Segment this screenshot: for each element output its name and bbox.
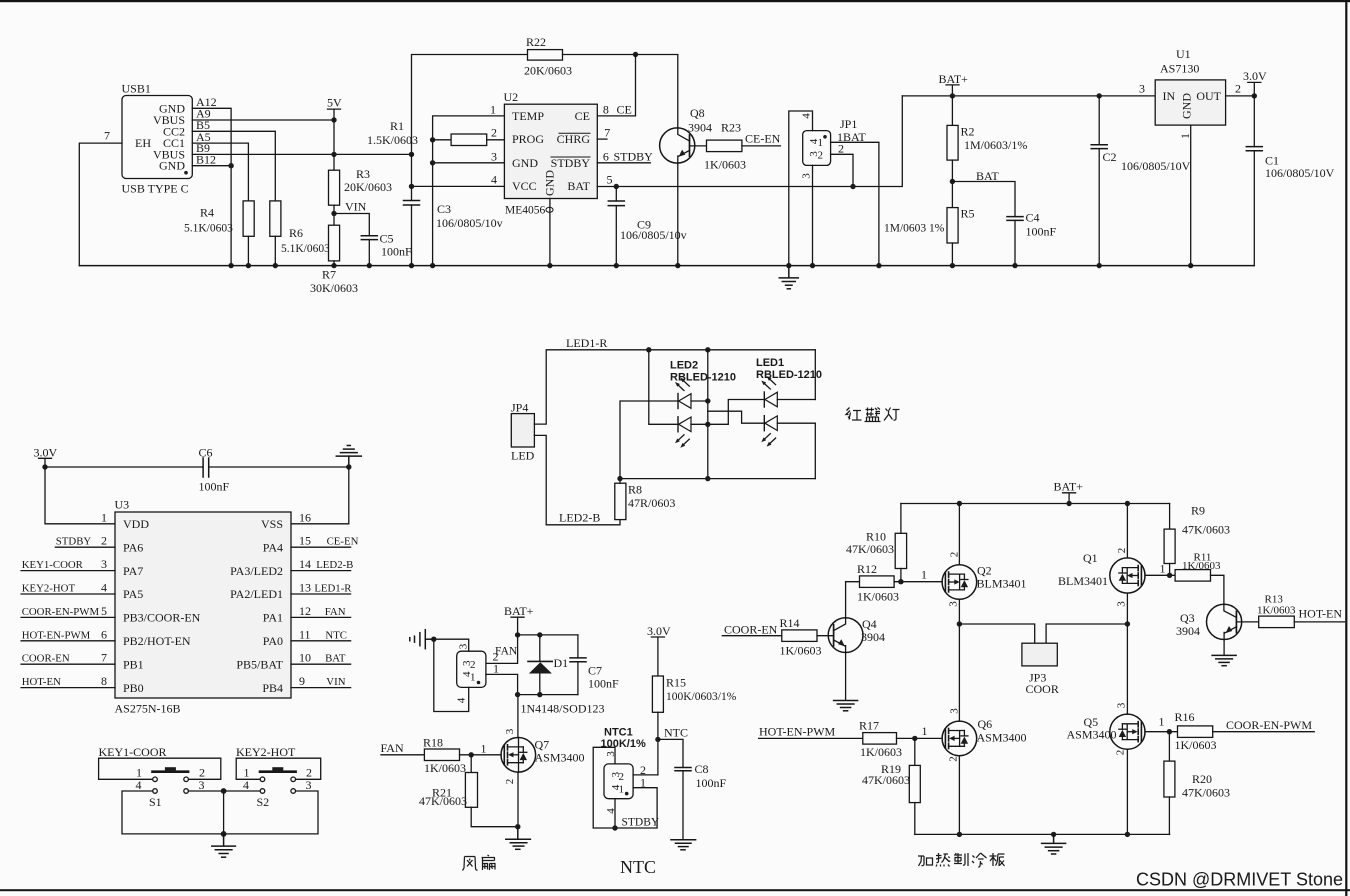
wire Q8 base to R23 <box>690 145 707 147</box>
junction A9 5V <box>331 117 336 122</box>
U2 pin numbers left <box>490 103 497 187</box>
mosfet Q6 <box>942 721 977 756</box>
svg-text:2: 2 <box>1116 548 1128 554</box>
wire fan pin1 to drain rail <box>486 674 518 694</box>
wire U1 GND pin1 <box>1190 125 1192 266</box>
svg-text:USB1: USB1 <box>122 82 151 96</box>
svg-text:7: 7 <box>104 129 110 143</box>
svg-text:2: 2 <box>1115 750 1127 756</box>
resistor R23 <box>707 140 742 152</box>
svg-text:4: 4 <box>101 581 107 595</box>
svg-text:106/0805/10v: 106/0805/10v <box>620 228 687 242</box>
resistor R20 <box>1164 761 1175 797</box>
svg-text:PROG: PROG <box>512 132 544 146</box>
wire Q1 drain down <box>1126 593 1128 624</box>
svg-text:1: 1 <box>493 662 499 676</box>
wire R21 bottom to source <box>471 807 518 826</box>
U3 pin numbers right <box>299 510 311 688</box>
svg-text:CE-EN: CE-EN <box>745 132 781 146</box>
svg-text:3904: 3904 <box>688 121 712 135</box>
U3 right net labels <box>314 536 358 688</box>
junction Q5 gate node <box>1167 729 1172 734</box>
svg-text:5V: 5V <box>327 96 342 110</box>
svg-text:Q2: Q2 <box>977 564 992 578</box>
wire crossover to LED1 top <box>708 400 765 425</box>
svg-text:COOR: COOR <box>1026 682 1059 696</box>
ground symbol Q3 <box>1212 655 1236 665</box>
svg-text:R12: R12 <box>857 562 877 576</box>
wire NTC1 pin2 <box>633 774 658 776</box>
svg-text:R17: R17 <box>859 719 879 733</box>
svg-text:4: 4 <box>456 697 468 703</box>
resistor R1 <box>451 134 487 146</box>
svg-text:6: 6 <box>101 627 107 641</box>
svg-text:LED2-B: LED2-B <box>559 511 600 525</box>
U3 pin names left <box>123 517 201 695</box>
capacitor C4 <box>1007 217 1023 266</box>
svg-text:C7: C7 <box>588 664 602 678</box>
svg-text:AS7130: AS7130 <box>1160 62 1199 76</box>
U3 pin numbers left <box>101 510 107 688</box>
svg-text:ME4056: ME4056 <box>505 205 546 217</box>
svg-text:1N4148/SOD123: 1N4148/SOD123 <box>521 702 605 716</box>
svg-text:HOT-EN-PWM: HOT-EN-PWM <box>759 725 836 739</box>
wire Q7 source down <box>517 772 519 827</box>
wire TEMP pin1 <box>433 116 505 266</box>
svg-text:GND: GND <box>543 170 557 196</box>
svg-text:3: 3 <box>1116 702 1128 708</box>
svg-text:KEY1-COOR: KEY1-COOR <box>22 559 84 571</box>
ground symbol keys <box>212 834 236 857</box>
svg-text:13: 13 <box>299 581 311 595</box>
svg-text:10: 10 <box>299 651 311 665</box>
svg-text:30K/0603: 30K/0603 <box>310 281 358 295</box>
svg-text:BLM3401: BLM3401 <box>1058 574 1108 588</box>
junction top rail x649 <box>646 347 651 352</box>
wire Q8 emitter to rail <box>677 163 679 266</box>
wire Q5 drain up <box>1126 624 1128 714</box>
svg-text:R14: R14 <box>780 616 800 630</box>
wire BAT+ top rail <box>902 95 1155 97</box>
svg-text:PB3/COOR-EN: PB3/COOR-EN <box>123 611 201 625</box>
capacitor C6 <box>203 458 209 477</box>
svg-text:R23: R23 <box>721 121 741 135</box>
wire U2 GND bottom <box>549 199 551 266</box>
resistor R5 <box>947 208 958 243</box>
wire Q6 drain up <box>958 624 960 721</box>
svg-text:ASM3400: ASM3400 <box>535 751 585 765</box>
svg-text:1.5K/0603: 1.5K/0603 <box>367 133 418 147</box>
svg-text:BAT: BAT <box>567 179 590 193</box>
wire H-bridge top rail <box>901 503 1170 505</box>
wire JP4 pin1 to LED1-R rail <box>534 350 815 424</box>
title ban board char <box>990 853 1005 866</box>
wire NTC to C8 <box>658 739 683 767</box>
svg-text:LED1-R: LED1-R <box>566 336 607 350</box>
power BAT+ symbol <box>939 72 969 96</box>
svg-text:PB1: PB1 <box>123 657 144 671</box>
svg-text:2: 2 <box>838 142 844 156</box>
wire Q5 source down <box>1126 749 1128 834</box>
svg-text:1K/0603: 1K/0603 <box>857 590 899 604</box>
wire S1 pin4 loop <box>122 791 224 834</box>
svg-text:1: 1 <box>921 568 927 582</box>
svg-text:RBLED-1210: RBLED-1210 <box>670 372 736 384</box>
resistor R8 <box>615 483 626 519</box>
wire JP1 pin4 to ground <box>789 111 813 266</box>
svg-text:RBLED-1210: RBLED-1210 <box>756 369 822 381</box>
junction U2 GND rail <box>547 263 552 268</box>
junction R8 rail <box>617 476 622 481</box>
svg-text:PB5/BAT: PB5/BAT <box>236 657 283 671</box>
svg-text:2: 2 <box>491 126 497 140</box>
svg-text:4: 4 <box>801 113 813 119</box>
title deng lamp char <box>884 408 900 421</box>
wire H-bridge bottom rail <box>915 833 1170 835</box>
junction C3 rail <box>409 263 414 268</box>
junction VIN <box>331 211 336 216</box>
wire R21 vertical <box>470 755 472 773</box>
svg-text:KEY1-COOR: KEY1-COOR <box>99 745 167 759</box>
resistor R11 <box>1175 570 1210 582</box>
wire B5 CC2 to R6 <box>192 131 275 201</box>
wire Q4 collector to R12 <box>846 582 860 618</box>
capacitor C7 <box>570 635 586 695</box>
svg-text:4: 4 <box>808 138 820 144</box>
svg-text:7: 7 <box>101 651 107 665</box>
wire NTC1 pin1 to STDBY <box>615 788 657 828</box>
wire Q1 source up <box>1126 504 1128 558</box>
wire JP1 pin3 down <box>812 165 814 265</box>
svg-text:C5: C5 <box>380 232 394 246</box>
svg-text:NTC: NTC <box>664 726 688 740</box>
svg-text:STDBY: STDBY <box>614 149 654 163</box>
wire R9 to Q1 gate node <box>1169 564 1171 576</box>
svg-text:C2: C2 <box>1103 150 1117 164</box>
junction Q8 emitter rail <box>675 263 680 268</box>
svg-text:USB TYPE C: USB TYPE C <box>122 182 189 196</box>
power 3.0V symbol U3 <box>34 446 58 468</box>
resistor R18 <box>424 749 459 761</box>
wire R1 left stub <box>433 139 452 141</box>
IC U2 body <box>504 104 597 198</box>
junction Q2 gate node <box>898 579 903 584</box>
svg-text:OUT: OUT <box>1196 89 1221 103</box>
wire R2 to BAT node <box>951 160 953 208</box>
wire NTC1 pin4 stub <box>614 799 616 828</box>
junction LED2 top anode <box>705 398 710 403</box>
svg-text:IN: IN <box>1163 89 1176 103</box>
wire rail to R2 <box>951 96 953 126</box>
S2 pin labels <box>243 766 312 793</box>
wire JP1 pin2 to BAT line <box>831 154 853 186</box>
wire 5V to R3 <box>333 120 335 170</box>
wire COOR-EN to R14 <box>722 635 782 637</box>
junction top rail x708 <box>705 347 710 352</box>
svg-text:47R/0603: 47R/0603 <box>628 496 675 510</box>
wire Q5 gate wire <box>1145 731 1178 733</box>
capacitor C9 <box>608 187 624 266</box>
NTC1 inside numbers <box>610 771 624 796</box>
wire R19 to bottom rail <box>914 803 916 835</box>
junction BAT+ rail <box>950 93 955 98</box>
svg-text:100nF: 100nF <box>696 776 727 790</box>
svg-text:VIN: VIN <box>326 676 345 688</box>
svg-text:ASM3400: ASM3400 <box>977 731 1027 745</box>
junction B12 <box>228 163 233 168</box>
junction Q6 gate node <box>912 736 917 741</box>
junction VSS rail <box>346 464 351 469</box>
U2 pin names <box>512 109 591 196</box>
resistor R3 <box>329 170 340 205</box>
svg-text:STDBY: STDBY <box>56 536 92 548</box>
resistor R2 <box>947 125 958 160</box>
wire Q1 gate wire <box>1145 574 1175 576</box>
svg-text:1: 1 <box>1178 133 1192 139</box>
wire R6 to rail <box>274 236 276 265</box>
svg-text:4: 4 <box>243 778 249 792</box>
mosfet Q7 <box>501 738 536 773</box>
svg-text:R9: R9 <box>1191 504 1205 518</box>
svg-text:C3: C3 <box>437 202 451 216</box>
junction LED2 bottom anode <box>705 422 710 427</box>
svg-text:PB2/HOT-EN: PB2/HOT-EN <box>123 634 191 648</box>
svg-text:VIN: VIN <box>345 200 367 214</box>
ground symbol fan bottom <box>506 827 531 850</box>
svg-text:R1: R1 <box>390 119 404 133</box>
wire fan pin4 loop <box>434 639 469 711</box>
LED LED2 top diode <box>675 378 708 409</box>
svg-text:U3: U3 <box>115 498 130 512</box>
svg-text:PA0: PA0 <box>263 634 283 648</box>
title feng wind char <box>463 857 478 871</box>
wire COOR-EN-PWM <box>1213 731 1315 733</box>
title leng cold char <box>972 853 987 868</box>
junction VCC C3 <box>409 184 414 189</box>
wire COOR right rail to JP3 <box>1046 624 1127 643</box>
wire CHRG pin7 stub <box>597 138 607 140</box>
svg-text:16: 16 <box>299 510 311 524</box>
wire R8 top to LED bottom rail <box>620 479 815 484</box>
svg-text:1: 1 <box>101 510 107 524</box>
svg-text:S2: S2 <box>257 795 270 809</box>
IC U3 body <box>115 512 291 698</box>
wire main ground rail <box>79 265 1254 267</box>
wire GND pin3 <box>433 162 505 164</box>
svg-text:PA7: PA7 <box>123 564 143 578</box>
junction gnd rail <box>1051 832 1056 837</box>
svg-text:R2: R2 <box>961 125 975 139</box>
resistor R15 <box>652 676 663 712</box>
wire rail to R10 <box>900 504 902 534</box>
resistor R12 <box>860 576 895 588</box>
svg-text:3: 3 <box>504 728 516 734</box>
junction R1 left <box>430 137 435 142</box>
svg-text:CE: CE <box>575 109 590 123</box>
wire R22 rail right to Q8 collector <box>563 55 678 129</box>
U3 right net stub wires <box>291 547 351 687</box>
wire R17 to Q6 gate <box>897 737 943 739</box>
svg-text:3: 3 <box>1116 601 1128 607</box>
svg-text:PA6: PA6 <box>123 540 143 554</box>
junction D1 rail top <box>515 632 520 637</box>
wire R12 to gate node <box>894 581 942 583</box>
wire LED2 common vertical <box>707 350 709 479</box>
svg-text:3.0V: 3.0V <box>34 446 58 460</box>
svg-text:C4: C4 <box>1026 211 1040 225</box>
svg-text:CE: CE <box>617 103 632 117</box>
junction fan gnd <box>431 637 436 642</box>
ground symbol fan rotated <box>410 630 434 649</box>
svg-text:47K/0603: 47K/0603 <box>419 794 467 808</box>
junction rail Q1 <box>1125 501 1130 506</box>
U3 left net labels <box>22 536 100 688</box>
svg-text:1: 1 <box>481 742 487 756</box>
resistor R16 <box>1178 726 1213 738</box>
capacitor C2 <box>1091 96 1107 266</box>
svg-text:R6: R6 <box>289 226 303 240</box>
switch S2 <box>260 767 296 793</box>
svg-text:BAT+: BAT+ <box>1054 480 1084 494</box>
wire R10 to gate node <box>900 569 902 582</box>
junction NTC node <box>655 737 660 742</box>
svg-text:VSS: VSS <box>261 517 283 531</box>
svg-text:STDBY: STDBY <box>551 156 591 170</box>
svg-text:3: 3 <box>949 708 961 714</box>
svg-text:8: 8 <box>603 103 609 117</box>
U2 pin numbers right <box>603 103 653 187</box>
svg-text:R18: R18 <box>423 736 443 750</box>
svg-text:BAT: BAT <box>325 653 346 665</box>
svg-text:BLM3401: BLM3401 <box>977 577 1027 591</box>
diode D1 <box>528 635 552 695</box>
junction Q7 source gnd <box>515 824 520 829</box>
power 5V symbol <box>327 96 342 121</box>
switch S1 <box>153 767 189 793</box>
svg-text:AS275N-16B: AS275N-16B <box>115 702 181 716</box>
svg-text:CHRG: CHRG <box>557 132 591 146</box>
junction pin2 BAT <box>850 184 855 189</box>
svg-text:4: 4 <box>610 784 622 790</box>
resistor R19 <box>909 765 920 802</box>
svg-text:CSDN @DRMIVET Stone: CSDN @DRMIVET Stone <box>1136 870 1343 890</box>
title zhi make char <box>954 853 968 866</box>
resistor R21 <box>465 773 477 808</box>
junction C9 top <box>614 184 619 189</box>
title shan fan char <box>482 855 496 870</box>
svg-text:R5: R5 <box>961 207 975 221</box>
svg-text:3.0V: 3.0V <box>647 624 671 638</box>
resistor R17 <box>863 733 897 745</box>
capacitor C5 <box>361 236 377 266</box>
capacitor C1 <box>1246 96 1262 266</box>
junction gate R21 <box>469 752 474 757</box>
junction D1 top <box>537 632 542 637</box>
svg-text:2: 2 <box>1235 82 1241 96</box>
resistor R10 <box>895 533 906 568</box>
wire VDD rail left <box>45 466 203 468</box>
wire BAT to C4 <box>952 182 1015 217</box>
svg-text:R20: R20 <box>1192 772 1212 786</box>
wire A5 CC1 to R4 <box>192 143 248 201</box>
junction U1 GND rail <box>1188 263 1193 268</box>
svg-text:1: 1 <box>1159 715 1165 729</box>
label ME4056 <box>505 205 553 217</box>
junction bottom rail x708 <box>705 476 710 481</box>
svg-text:R4: R4 <box>200 206 214 220</box>
resistor R6 <box>270 201 281 236</box>
capacitor C3 <box>404 201 420 266</box>
svg-text:JP4: JP4 <box>511 401 528 415</box>
wire Q3 emitter down <box>1223 640 1225 656</box>
svg-text:3: 3 <box>948 601 960 607</box>
svg-text:1M/0603/1%: 1M/0603/1% <box>964 138 1027 152</box>
wire Q2 drain down <box>958 599 960 624</box>
junction JP1 pin3 rail <box>810 263 815 268</box>
junction R7 rail <box>331 263 336 268</box>
svg-text:3: 3 <box>461 660 473 666</box>
junction R5 rail <box>950 263 955 268</box>
wire S2 pin3 loop <box>224 791 318 834</box>
wire Q2 source up <box>958 504 960 565</box>
svg-text:LED1: LED1 <box>756 357 784 369</box>
svg-text:11: 11 <box>299 627 311 641</box>
svg-text:VDD: VDD <box>123 517 149 531</box>
wire rail to R9 <box>1169 504 1171 530</box>
title jia add char <box>918 856 933 866</box>
svg-text:R22: R22 <box>526 35 546 49</box>
svg-text:4: 4 <box>461 671 473 677</box>
wire COOR left rail to JP3 <box>959 624 1034 643</box>
mosfet Q5 <box>1110 714 1145 749</box>
svg-text:R16: R16 <box>1175 710 1195 724</box>
wire R4 to rail <box>247 236 249 265</box>
wire R7 to rail <box>333 261 335 266</box>
wire R18 to Q7 gate <box>460 754 502 756</box>
svg-text:2: 2 <box>948 756 960 762</box>
svg-text:C6: C6 <box>199 446 213 460</box>
svg-text:CE-EN: CE-EN <box>327 536 359 548</box>
wire R1 to PROG pin2 <box>487 139 505 141</box>
wire NTC1 pin3 loop <box>593 747 615 828</box>
junction BAT+ hbridge <box>1066 501 1071 506</box>
wire R5 to rail <box>951 243 953 266</box>
svg-text:Q1: Q1 <box>1083 551 1098 565</box>
svg-text:3: 3 <box>491 149 497 163</box>
junction Q5 source rail <box>1125 832 1130 837</box>
svg-text:Q3: Q3 <box>1180 611 1195 625</box>
connector JP3 body <box>1022 643 1057 666</box>
U2 CHRG overline <box>559 132 590 134</box>
svg-text:9: 9 <box>299 674 305 688</box>
svg-text:R7: R7 <box>322 268 336 282</box>
junction COOR left node <box>957 621 962 626</box>
junction Q6 source rail <box>957 832 962 837</box>
svg-text:47K/0603: 47K/0603 <box>1182 786 1230 800</box>
title hong red char <box>846 408 862 421</box>
svg-text:1K/0603: 1K/0603 <box>860 745 902 759</box>
svg-text:PA3/LED2: PA3/LED2 <box>230 564 283 578</box>
svg-text:PB4: PB4 <box>262 681 283 695</box>
wire crossover to LED1 bottom <box>708 411 765 423</box>
svg-text:FAN: FAN <box>325 606 346 618</box>
svg-text:5.1K/0603: 5.1K/0603 <box>184 223 233 235</box>
svg-text:20K/0603: 20K/0603 <box>524 64 572 78</box>
svg-text:3: 3 <box>801 173 813 179</box>
svg-text:Q4: Q4 <box>862 617 877 631</box>
svg-text:EH: EH <box>135 136 151 150</box>
connector fan body <box>457 651 486 687</box>
